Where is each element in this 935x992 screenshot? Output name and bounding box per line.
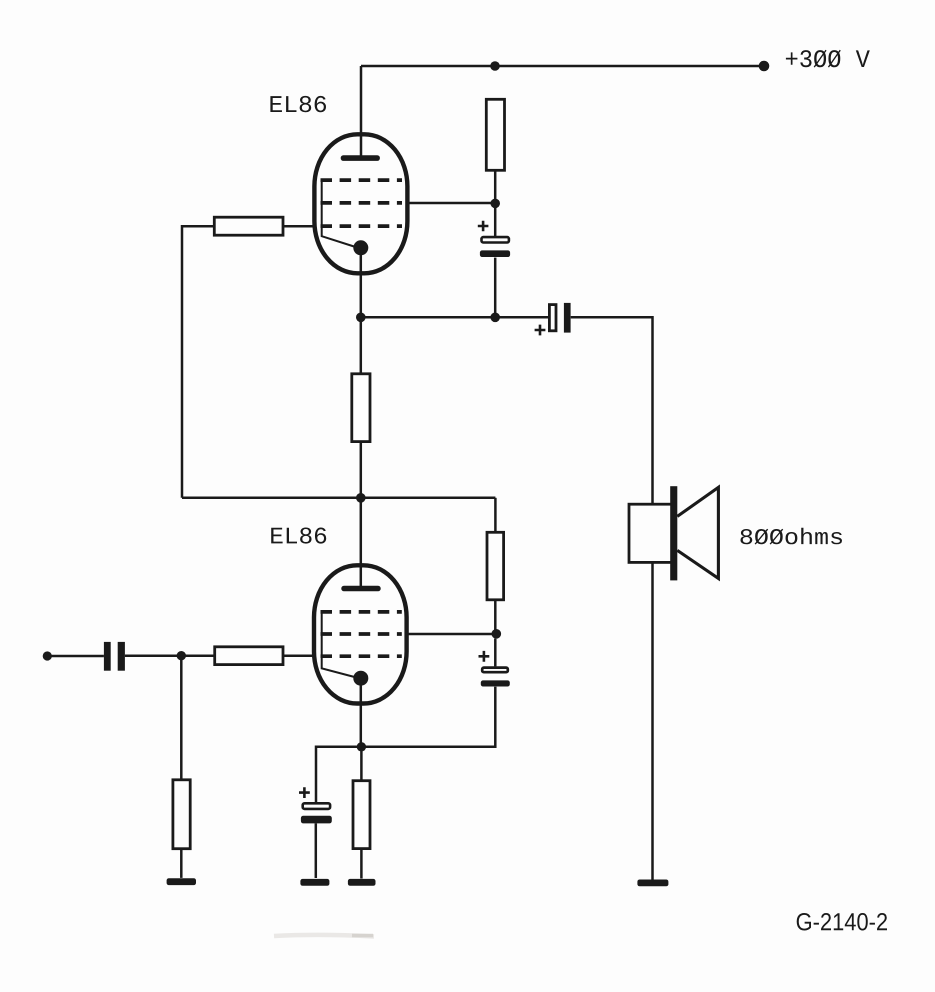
resistor R3 between tubes xyxy=(352,374,370,442)
node input terminal xyxy=(43,651,52,660)
wire mid rail xyxy=(361,316,549,319)
wire g2 upper tube to node xyxy=(407,202,495,205)
wire lower rail xyxy=(182,497,495,500)
wire R4 to node xyxy=(494,600,497,634)
capacitor C3 coupling plus sign xyxy=(535,325,546,336)
wire internal grid tie lower xyxy=(322,612,355,677)
wire top rail +300V xyxy=(361,65,764,68)
wire R6 to tube g1 xyxy=(283,655,314,658)
wire feedback R2 to lower rail xyxy=(182,226,214,498)
resistor R1 plate load upper xyxy=(486,99,504,170)
wire node to R5 xyxy=(360,747,363,781)
wire cathode lower xyxy=(360,680,363,747)
wire anode lower tube xyxy=(360,498,363,588)
node lower rail center xyxy=(356,493,366,503)
wire C2 to node xyxy=(125,655,215,658)
resistor R2 grid upper xyxy=(214,217,283,235)
wire C4 bottom to cathode node xyxy=(361,687,495,747)
capacitor C4 plus sign xyxy=(479,651,490,662)
ground cathode resistor xyxy=(348,879,376,886)
node g2 lower junction xyxy=(492,629,502,639)
capacitor C2 input xyxy=(104,642,111,671)
node cathode rail right xyxy=(490,313,500,323)
grid g1 dashed lower xyxy=(321,654,402,658)
node screen grid junction upper xyxy=(490,199,500,209)
grid g3 dashed lower xyxy=(321,610,402,614)
anode bar lower xyxy=(341,586,380,592)
label G-2140-2 xyxy=(797,913,887,931)
wire to bypass cap C5 xyxy=(316,747,361,803)
speaker LS1 box xyxy=(629,504,672,562)
ground bypass cap xyxy=(300,879,329,886)
wire cathode upper xyxy=(360,250,363,317)
capacitor C1 plus sign xyxy=(478,221,489,232)
wire input to C2 xyxy=(51,655,104,658)
resistor R4 screen lower xyxy=(487,532,504,600)
capacitor C5 cathode bypass xyxy=(303,803,330,809)
node cathode rail left xyxy=(356,313,366,323)
node top rail junction xyxy=(490,61,500,71)
wire R7 to ground xyxy=(180,849,183,878)
resistor R7 grid leak xyxy=(173,780,190,849)
tube U1 EL86 upper envelope xyxy=(314,134,407,273)
wire C1 to mid rail xyxy=(494,258,497,318)
label EL86 upper xyxy=(270,96,326,112)
cathode dot lower xyxy=(353,671,368,686)
ground speaker xyxy=(637,880,668,887)
wire node to C1 xyxy=(494,203,497,236)
wire R1 to node xyxy=(494,170,497,203)
wire rail down to R4 xyxy=(494,498,497,533)
wire R5 to ground xyxy=(360,849,363,879)
label 800ohms xyxy=(740,528,841,545)
wire speaker to ground xyxy=(651,562,654,879)
cathode dot upper xyxy=(353,240,368,255)
label EL86 lower xyxy=(271,528,326,544)
anode bar upper xyxy=(341,155,380,161)
wire C3 to speaker xyxy=(571,317,653,504)
wire g2 lower to node xyxy=(407,633,497,636)
scan smudge bottom xyxy=(274,935,374,937)
wire rail to R3 top xyxy=(360,317,363,374)
wire anode upper tube xyxy=(360,66,363,157)
resistor R6 grid stopper lower xyxy=(215,647,283,665)
ground grid leak xyxy=(167,878,196,885)
node input junction xyxy=(177,651,186,660)
capacitor C1 xyxy=(482,237,509,242)
label +300 V xyxy=(786,50,870,68)
grid g3 dashed upper xyxy=(321,178,403,182)
grid g2 dashed lower xyxy=(321,632,402,636)
wire C4 to node xyxy=(494,639,497,667)
wire internal grid tie upper xyxy=(322,180,354,246)
wire C5 to ground xyxy=(315,823,318,878)
grid g1 dashed upper xyxy=(321,224,403,228)
wire node down to R7 xyxy=(180,656,183,780)
grid g2 dashed upper xyxy=(321,201,403,205)
tube U2 EL86 lower envelope xyxy=(314,565,407,703)
wire g1 upper from R2 xyxy=(283,225,314,228)
wire R3 bottom to node xyxy=(360,442,363,498)
node cathode junction lower xyxy=(357,742,366,751)
capacitor C5 plus sign xyxy=(299,787,310,798)
resistor R5 cathode lower xyxy=(353,781,370,849)
speaker horn xyxy=(677,487,718,578)
capacitor C3 coupling xyxy=(549,305,556,331)
speaker membrane bar xyxy=(670,486,677,580)
capacitor C4 screen bypass xyxy=(482,668,508,673)
node +300V terminal xyxy=(759,61,770,72)
